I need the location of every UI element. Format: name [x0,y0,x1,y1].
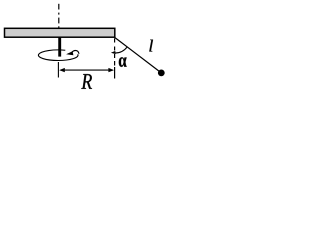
rotation-direction ellipse arrow [38,50,78,61]
rotation arrowhead [66,51,73,55]
angle arc arrowhead [111,51,116,54]
pendulum bob [158,70,165,77]
label R [81,74,92,89]
R dimension double arrow [61,69,113,71]
label alpha [119,57,127,67]
label l [149,40,153,52]
R dimension left tick (at axis) [57,62,59,78]
rotating bar [5,28,115,37]
pendulum string l [115,38,162,73]
rotation axis dash-dot line above bar [58,4,60,28]
axle: thick vertical shaft below bar [58,37,61,56]
dashed extension line below pendulum pivot [114,38,116,65]
angle alpha arc [115,47,127,53]
rotation arrow swoosh tail [72,50,79,53]
R dimension right tick [114,67,116,79]
